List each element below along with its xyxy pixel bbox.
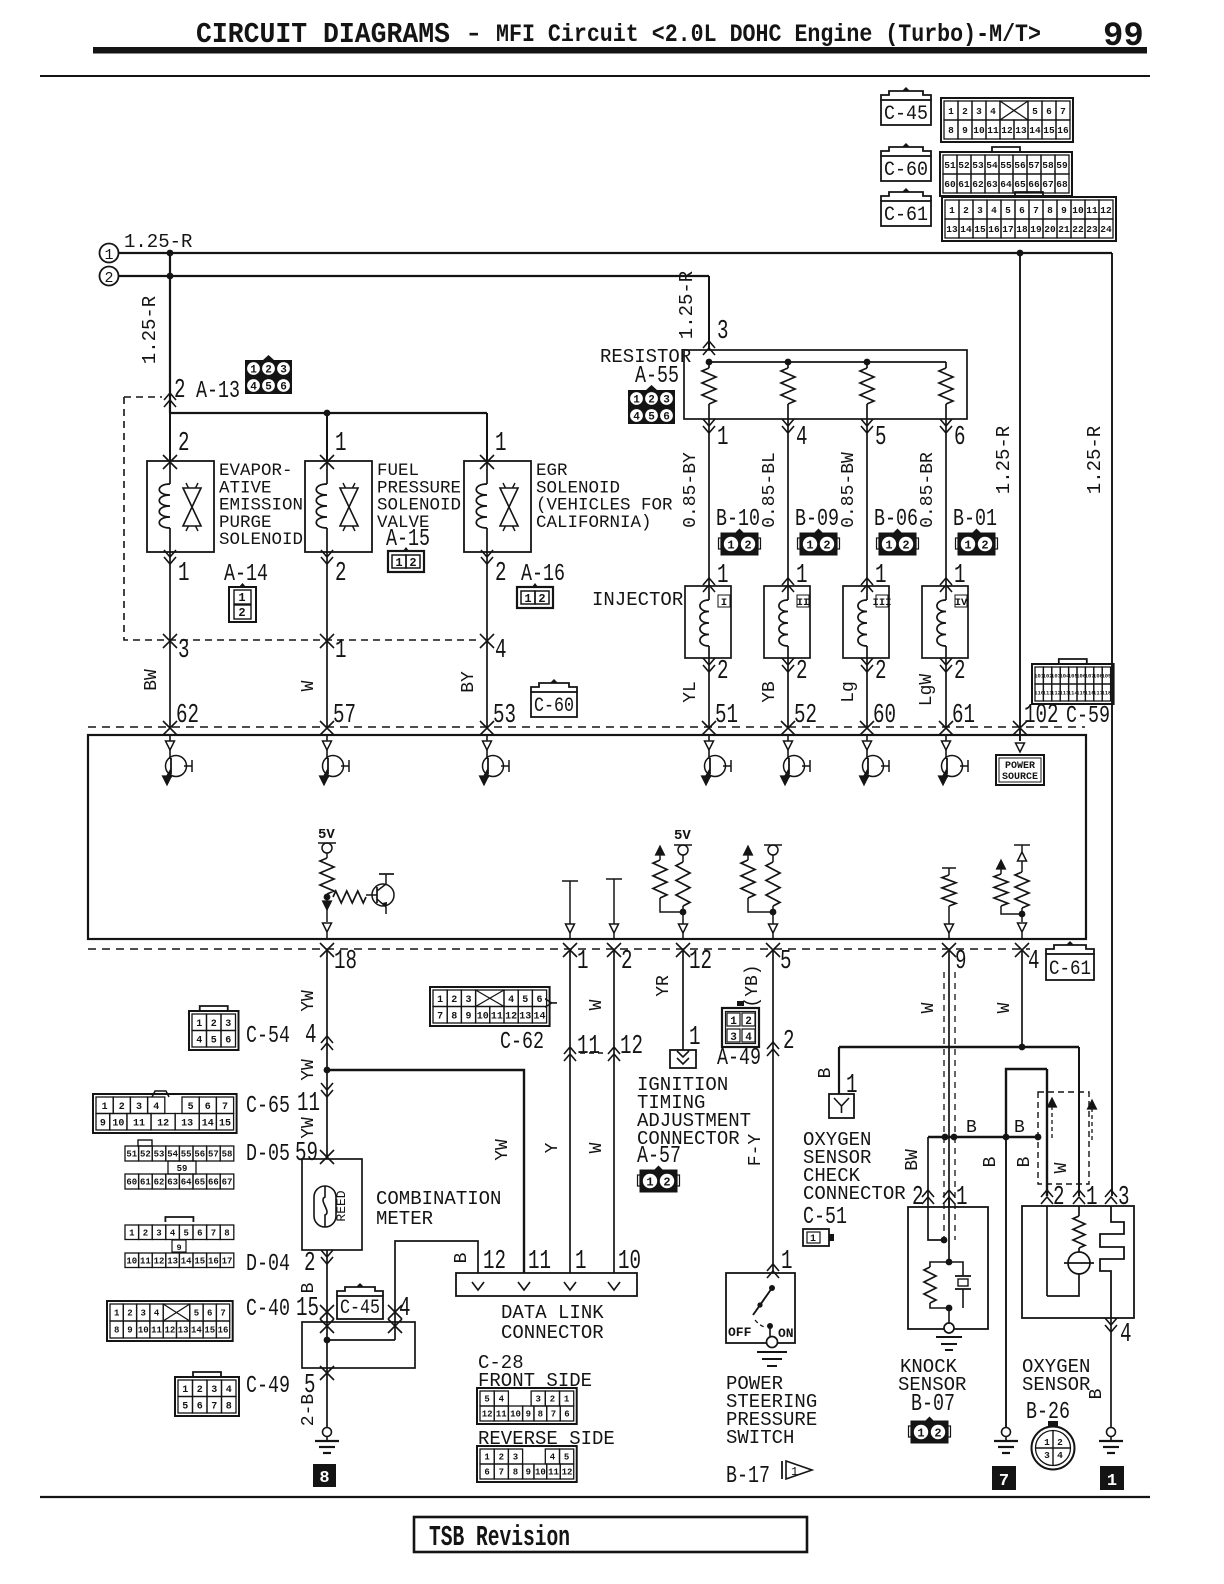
- svg-text:4: 4: [153, 1102, 159, 1113]
- svg-text:10: 10: [112, 1118, 124, 1129]
- TSB Revision box: [414, 1517, 807, 1552]
- chevron power steering entry: [767, 1264, 779, 1278]
- svg-text:59: 59: [177, 1164, 188, 1174]
- chevron pin2: [767, 1042, 779, 1056]
- chevron knock pin2: [922, 1190, 934, 1204]
- svg-text:1: 1: [730, 1016, 737, 1028]
- svg-text:3: 3: [280, 365, 287, 377]
- svg-text:62: 62: [154, 1178, 165, 1188]
- injector No.2 box: [764, 586, 810, 658]
- shield drain arrow 1: [1051, 1106, 1053, 1140]
- wire resistor out 4: [782, 419, 794, 433]
- injector No.2 coil: [787, 586, 789, 600]
- wire injector No.2 to ECU: [782, 658, 794, 672]
- switch lever: [769, 1285, 775, 1291]
- chevron resistor pin 3: [703, 341, 715, 355]
- wire: ECU pin5 to power steering switch: [772, 949, 774, 1273]
- svg-text:1: 1: [437, 995, 443, 1006]
- svg-text:1: 1: [524, 592, 531, 606]
- svg-text:1: 1: [717, 423, 729, 453]
- svg-text:2: 2: [745, 1016, 752, 1028]
- svg-text:12: 12: [562, 1468, 573, 1478]
- svg-text:11: 11: [496, 1410, 507, 1420]
- knock sensor capacitor: [949, 1262, 963, 1276]
- injector No.4 coil: [945, 586, 947, 600]
- internal diode at pin18: [323, 901, 332, 910]
- header rule thin: [40, 75, 1150, 77]
- svg-text:1: 1: [885, 539, 892, 553]
- connector C-61 label: [881, 192, 931, 201]
- injector No.4 numeral: [955, 595, 967, 607]
- svg-text:CONNECTOR: CONNECTOR: [501, 1322, 604, 1344]
- svg-text:C-60: C-60: [534, 695, 574, 718]
- ECU driver transistor Q2: [326, 735, 328, 741]
- node B bus right end: [1035, 1134, 1042, 1141]
- connector C-60 label icon: [531, 683, 577, 692]
- svg-text:4: 4: [154, 1309, 160, 1319]
- svg-text:12: 12: [164, 1326, 175, 1336]
- svg-text:15: 15: [1043, 125, 1055, 136]
- svg-text:15: 15: [296, 1294, 319, 1324]
- svg-text:1: 1: [948, 106, 954, 117]
- svg-text:1: 1: [1044, 1437, 1050, 1448]
- continuation triangle marker: [786, 1461, 812, 1479]
- chevron D-05: [320, 1150, 334, 1164]
- svg-text:2: 2: [119, 1102, 125, 1113]
- svg-text:11: 11: [491, 1011, 503, 1022]
- connector D-04 icon: [165, 1217, 193, 1222]
- svg-text:2: 2: [963, 205, 969, 216]
- svg-text:16: 16: [988, 224, 1000, 235]
- oxygen sensor internal return: [1047, 1206, 1079, 1296]
- svg-text:53: 53: [972, 160, 984, 171]
- chevron C-65: [321, 1083, 333, 1097]
- oxygen sensor check connector symbol: [829, 1094, 854, 1118]
- connector A-14 icon: [229, 587, 256, 622]
- svg-text:53: 53: [154, 1150, 165, 1160]
- svg-text:1: 1: [689, 1023, 701, 1053]
- svg-text:C-61: C-61: [884, 204, 928, 227]
- svg-text:C-45: C-45: [884, 103, 928, 126]
- connector C-62 pin view: [430, 987, 550, 1026]
- svg-text:61: 61: [140, 1178, 151, 1188]
- internal line to pin1: [562, 880, 578, 882]
- svg-text:1: 1: [495, 429, 507, 459]
- svg-text:7: 7: [999, 1472, 1009, 1491]
- connector C-61 label icon: [1046, 945, 1094, 954]
- svg-text:11: 11: [548, 1468, 559, 1478]
- wire: ECU pin4 to B junction: [1021, 949, 1023, 1047]
- resistor pack A-55 box: [684, 350, 967, 419]
- svg-text:66: 66: [1028, 179, 1040, 190]
- chevron harness crossing x170: [163, 634, 177, 648]
- wire: B line corner to oxygen sensor pin1: [1078, 1047, 1080, 1196]
- svg-text:13: 13: [946, 224, 958, 235]
- wire: fuel pressure solenoid to ECU pin57: [321, 550, 333, 564]
- svg-text:1.25-R: 1.25-R: [993, 426, 1015, 494]
- svg-text:YB: YB: [760, 681, 780, 703]
- svg-text:2: 2: [174, 376, 186, 406]
- wire resistor out 1: [703, 419, 715, 433]
- svg-text:W: W: [587, 1142, 607, 1153]
- connector C-40 icon: [107, 1301, 233, 1341]
- svg-text:7: 7: [211, 1401, 217, 1412]
- svg-text:B: B: [1015, 1156, 1035, 1167]
- dashed tie between C-62 pins: [580, 1052, 606, 1054]
- svg-text:0.85-BY: 0.85-BY: [681, 452, 701, 528]
- svg-text:1: 1: [238, 591, 245, 605]
- ECU driver transistor Q6: [866, 735, 868, 741]
- svg-text:21: 21: [1058, 224, 1070, 235]
- svg-text:6: 6: [197, 1228, 202, 1238]
- svg-text:4: 4: [796, 423, 808, 453]
- sensor ground symbol: [1002, 1428, 1011, 1437]
- svg-text:1: 1: [956, 1183, 968, 1213]
- chevron ECU top pin x946: [939, 721, 953, 735]
- svg-text:2: 2: [981, 539, 988, 553]
- svg-text:B-10: B-10: [716, 506, 760, 533]
- svg-text:W: W: [995, 1002, 1015, 1013]
- svg-text:2: 2: [265, 365, 272, 377]
- svg-text:14: 14: [960, 224, 972, 235]
- svg-text:3: 3: [225, 1019, 231, 1030]
- svg-text:2: 2: [499, 1453, 504, 1463]
- wire: junction box to ground: [320, 1366, 334, 1380]
- svg-text:5: 5: [265, 382, 272, 394]
- wire: right rail 1.25-R to oxygen sensor: [1111, 253, 1113, 1196]
- svg-text:BW: BW: [142, 669, 162, 691]
- svg-text:2: 2: [912, 1183, 924, 1213]
- knock sensor box: [908, 1207, 988, 1329]
- svg-text:11: 11: [987, 125, 999, 136]
- svg-text:1: 1: [846, 1071, 858, 1101]
- injector No.4 box: [922, 586, 968, 658]
- header rule thick: [93, 47, 1147, 54]
- optional shield dashed box at oxygen sensor: [1038, 1092, 1089, 1184]
- wire: top power rail from terminal 1: [118, 252, 1112, 254]
- svg-text:4: 4: [550, 1453, 556, 1463]
- svg-text:51: 51: [944, 160, 956, 171]
- svg-text:YL: YL: [681, 681, 701, 703]
- svg-text:14: 14: [202, 1118, 214, 1129]
- svg-text:OFF: OFF: [728, 1325, 752, 1340]
- ECU driver transistor Q4: [708, 735, 710, 741]
- svg-text:2: 2: [621, 947, 633, 977]
- svg-text:15: 15: [204, 1326, 215, 1336]
- svg-text:1: 1: [791, 1465, 798, 1479]
- svg-text:6: 6: [1019, 205, 1025, 216]
- internal base resistor: [333, 891, 366, 903]
- svg-text:YR: YR: [654, 975, 674, 997]
- svg-text:5: 5: [648, 412, 655, 424]
- svg-text:11: 11: [140, 1256, 151, 1266]
- svg-text:2: 2: [902, 539, 909, 553]
- svg-text:3: 3: [730, 1032, 737, 1044]
- svg-text:11: 11: [133, 1118, 145, 1129]
- svg-text:2: 2: [211, 1019, 217, 1030]
- node: branch to data link connector: [324, 1067, 331, 1074]
- svg-text:64: 64: [1000, 179, 1012, 190]
- svg-text:8: 8: [319, 1469, 329, 1488]
- node resistor bus x709: [706, 359, 713, 366]
- svg-text:17: 17: [222, 1256, 233, 1266]
- svg-text:3: 3: [663, 395, 670, 407]
- svg-text:4: 4: [1028, 947, 1040, 977]
- svg-text:6: 6: [197, 1401, 203, 1412]
- svg-text:CALIFORNIA): CALIFORNIA): [536, 513, 652, 533]
- svg-text:1: 1: [395, 556, 402, 570]
- oxygen sensor box: [1022, 1206, 1134, 1318]
- svg-text:7: 7: [1033, 205, 1039, 216]
- ground ref box 1: [1100, 1466, 1124, 1490]
- svg-text:2: 2: [648, 395, 655, 407]
- wire injector No.4 to ECU: [940, 658, 952, 672]
- connector C-45 label: [881, 91, 931, 100]
- svg-text:5: 5: [194, 1309, 199, 1319]
- svg-text:5: 5: [564, 1453, 569, 1463]
- power steering switch ground: [767, 1337, 778, 1348]
- chevron ECU bottom pin x327: [320, 943, 334, 957]
- svg-text:POWER: POWER: [1005, 761, 1035, 772]
- svg-text:2: 2: [304, 1249, 316, 1279]
- svg-text:61: 61: [958, 179, 970, 190]
- wire: knock pin1 into sensor: [948, 1196, 950, 1262]
- wire: evap solenoid to ECU pin62: [164, 550, 176, 564]
- node pin18: [324, 894, 331, 901]
- svg-text:5: 5: [183, 1228, 188, 1238]
- svg-text:MFI Circuit <2.0L DOHC Engine: MFI Circuit <2.0L DOHC Engine (Turbo)-M/…: [496, 20, 1041, 49]
- svg-text:63: 63: [167, 1178, 178, 1188]
- svg-text:F-Y: F-Y: [746, 1134, 766, 1167]
- connector C-49 icon: [175, 1377, 239, 1416]
- chevron ECU bottom pin x614: [607, 943, 621, 957]
- svg-text:6: 6: [225, 1035, 231, 1046]
- wire: meter to D-04 / ground chain: [326, 1250, 328, 1322]
- chevron ECU top pin x867: [860, 721, 874, 735]
- svg-text:14: 14: [533, 1011, 545, 1022]
- svg-text:1: 1: [577, 947, 589, 977]
- svg-text:2: 2: [962, 106, 968, 117]
- internal resistor at pin9: [942, 868, 956, 875]
- EGR solenoid: [464, 461, 531, 552]
- svg-text:C-51: C-51: [803, 1204, 847, 1231]
- svg-text:1: 1: [964, 539, 971, 553]
- svg-text:1: 1: [875, 561, 887, 591]
- svg-text:1.25-R: 1.25-R: [1084, 426, 1106, 494]
- svg-text:8: 8: [224, 1228, 229, 1238]
- svg-text:10: 10: [126, 1256, 137, 1266]
- svg-text:1: 1: [114, 1309, 120, 1319]
- svg-text:5: 5: [780, 947, 792, 977]
- svg-text:–: –: [468, 20, 480, 50]
- C-28 reverse side pin view: [477, 1446, 577, 1482]
- svg-text:12: 12: [620, 1032, 643, 1062]
- power steering pressure switch box: [726, 1273, 795, 1343]
- svg-text:YW: YW: [493, 1139, 513, 1161]
- chassis ground left: [323, 1428, 332, 1437]
- svg-text:7: 7: [220, 1309, 225, 1319]
- connector A-13 icon: [263, 355, 274, 360]
- svg-text:51: 51: [126, 1150, 137, 1160]
- svg-text:18: 18: [1016, 224, 1028, 235]
- svg-text:66: 66: [208, 1178, 219, 1188]
- svg-text:4: 4: [633, 412, 640, 424]
- svg-text:22: 22: [1072, 224, 1084, 235]
- connector C-45 label icon: [337, 1287, 383, 1296]
- svg-text:7: 7: [437, 1011, 443, 1022]
- svg-text:8: 8: [226, 1401, 232, 1412]
- fuel pressure solenoid valve: [305, 461, 372, 552]
- svg-text:7: 7: [551, 1410, 556, 1420]
- resistor element 2 in A-55: [787, 362, 789, 368]
- svg-text:9: 9: [100, 1118, 106, 1129]
- POWER SOURCE arrow: [1016, 743, 1025, 752]
- svg-text:7: 7: [1060, 106, 1066, 117]
- svg-text:13: 13: [178, 1326, 189, 1336]
- svg-text:60: 60: [944, 179, 956, 190]
- svg-text:10: 10: [510, 1410, 521, 1420]
- svg-text:2: 2: [954, 657, 966, 687]
- svg-text:C-40: C-40: [246, 1296, 290, 1323]
- injector No.2 numeral: [797, 595, 809, 607]
- svg-text:16: 16: [218, 1326, 229, 1336]
- svg-text:11: 11: [297, 1089, 320, 1119]
- svg-text:C-45: C-45: [340, 1297, 380, 1320]
- svg-text:12: 12: [157, 1118, 169, 1129]
- svg-text:II: II: [797, 597, 810, 609]
- svg-text:65: 65: [194, 1178, 205, 1188]
- svg-text:59: 59: [1056, 160, 1068, 171]
- svg-text:109: 109: [1101, 672, 1111, 679]
- svg-text:A-13: A-13: [196, 378, 240, 405]
- ECU driver transistor Q3: [486, 735, 488, 741]
- oxygen sensor heater: [1100, 1206, 1124, 1318]
- injector No.1 box: [685, 586, 731, 658]
- svg-text:24: 24: [1100, 224, 1112, 235]
- connector C-65 icon: [93, 1094, 237, 1133]
- svg-text:6: 6: [280, 382, 287, 394]
- DLC entry arrows: [472, 1282, 484, 1290]
- svg-text:56: 56: [194, 1150, 205, 1160]
- svg-text:1: 1: [717, 561, 729, 591]
- wire: pin18 to combination meter: [326, 949, 328, 1159]
- svg-text:6: 6: [564, 1410, 569, 1420]
- connector A-49 icon: [722, 1001, 759, 1047]
- svg-text:A-16: A-16: [521, 561, 565, 588]
- svg-text:SOLENOID: SOLENOID: [219, 530, 303, 550]
- svg-text:4: 4: [495, 636, 507, 666]
- svg-text:11: 11: [577, 1032, 600, 1062]
- svg-text:B-01: B-01: [953, 506, 997, 533]
- svg-text:64: 64: [181, 1178, 192, 1188]
- svg-text:1: 1: [810, 1234, 816, 1245]
- svg-text:56: 56: [1014, 160, 1026, 171]
- wire: knock sensor pin2 drop: [927, 1137, 929, 1196]
- svg-text:D-04: D-04: [246, 1251, 290, 1278]
- ECU driver transistor Q1: [169, 735, 171, 741]
- oxygen sensor element resistor: [1078, 1206, 1080, 1216]
- reed switch symbol: [314, 1186, 336, 1227]
- svg-text:1: 1: [104, 247, 113, 264]
- svg-text:B-09: B-09: [795, 506, 839, 533]
- evaporative emission purge solenoid: [147, 461, 214, 552]
- bottom rule: [40, 1496, 1150, 1498]
- svg-text:A-14: A-14: [224, 561, 268, 588]
- internal resistor at pin18: [320, 858, 334, 894]
- svg-text:3: 3: [976, 106, 982, 117]
- wire: ECU pin2 to DLC pin10: [613, 949, 615, 1273]
- svg-text:9: 9: [127, 1326, 132, 1336]
- svg-text:5: 5: [211, 1035, 217, 1046]
- knock sensor piezo resistor: [930, 1262, 949, 1267]
- svg-text:C-59: C-59: [1066, 703, 1110, 730]
- ignition timing adjustment connector symbol: [670, 1050, 696, 1068]
- connector A-16 icon: [517, 583, 553, 608]
- svg-text:LgW: LgW: [917, 674, 937, 707]
- svg-text:1.25-R: 1.25-R: [676, 271, 698, 339]
- shield drain arrow 2: [1091, 1108, 1093, 1142]
- svg-text:52: 52: [140, 1150, 151, 1160]
- svg-text:D-05: D-05: [246, 1141, 290, 1168]
- svg-text:10: 10: [1072, 205, 1084, 216]
- svg-text:9: 9: [955, 947, 967, 977]
- node: junction rail1/branch x170: [167, 250, 174, 257]
- svg-text:63: 63: [986, 179, 998, 190]
- B ground bus: [928, 1136, 1038, 1138]
- svg-text:13: 13: [1015, 125, 1027, 136]
- svg-text:B-06: B-06: [874, 506, 918, 533]
- chevron C-62 pin11: [564, 1047, 576, 1061]
- svg-text:6: 6: [207, 1309, 212, 1319]
- chevron ECU bottom pin x1022: [1015, 943, 1029, 957]
- svg-text:12: 12: [482, 1410, 493, 1420]
- svg-text:BW: BW: [903, 1149, 923, 1171]
- svg-text:10: 10: [477, 1011, 489, 1022]
- svg-text:2: 2: [451, 995, 457, 1006]
- svg-text:3: 3: [136, 1102, 142, 1113]
- svg-text:2: 2: [1057, 1437, 1063, 1448]
- svg-text:58: 58: [222, 1150, 233, 1160]
- node: junction rail2 x170: [167, 273, 174, 280]
- svg-text:B: B: [966, 1118, 977, 1138]
- svg-text:1: 1: [102, 1102, 108, 1113]
- svg-text:B: B: [452, 1252, 472, 1263]
- svg-text:23: 23: [1086, 224, 1098, 235]
- oxygen sensor element cell: [1078, 1248, 1080, 1252]
- svg-text:3: 3: [1118, 1183, 1130, 1213]
- svg-text:SENSOR: SENSOR: [1022, 1374, 1090, 1396]
- svg-text:2: 2: [495, 559, 507, 589]
- svg-text:15: 15: [194, 1256, 205, 1266]
- svg-text:1: 1: [796, 561, 808, 591]
- connector C-61 pin view: [942, 197, 1116, 241]
- ECU driver transistor Q5: [787, 735, 789, 741]
- wire resistor out 6: [940, 419, 952, 433]
- svg-text:ON: ON: [778, 1326, 794, 1341]
- svg-text:1: 1: [178, 559, 190, 589]
- svg-text:7: 7: [499, 1468, 504, 1478]
- svg-text:1: 1: [129, 1228, 135, 1238]
- connector B-07 icon: [909, 1426, 912, 1437]
- svg-text:7: 7: [222, 1102, 228, 1113]
- wire injector No.3 to ECU: [861, 658, 873, 672]
- svg-text:11: 11: [528, 1247, 551, 1277]
- svg-text:4: 4: [170, 1228, 176, 1238]
- svg-text:10: 10: [973, 125, 985, 136]
- chevron ECU bottom pin x773: [766, 943, 780, 957]
- svg-text:5: 5: [1032, 106, 1038, 117]
- svg-text:3: 3: [141, 1309, 146, 1319]
